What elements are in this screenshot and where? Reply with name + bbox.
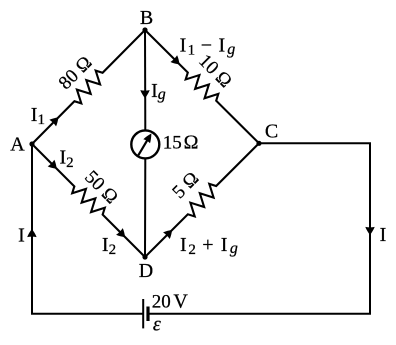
svg-text:ε: ε [153,314,161,336]
svg-text:15Ω: 15Ω [163,131,199,153]
svg-text:20V: 20V [152,290,189,312]
svg-text:D: D [139,260,153,282]
svg-text:I: I [380,224,387,246]
svg-text:I: I [18,224,25,246]
svg-text:A: A [10,134,25,156]
svg-text:C: C [265,121,278,143]
svg-text:B: B [140,7,153,29]
